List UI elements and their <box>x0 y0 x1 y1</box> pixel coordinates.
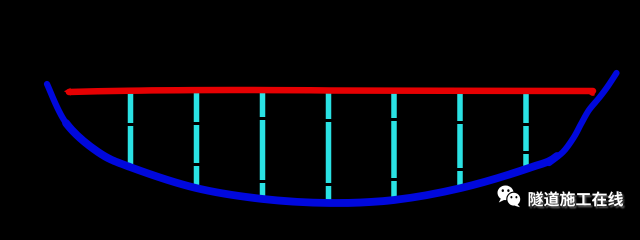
cyan strut 6 <box>457 92 463 190</box>
blue invert arc main <box>66 123 557 203</box>
red right end tick <box>588 93 595 96</box>
cyan strut 1 <box>128 92 134 169</box>
cyan strut 4 <box>326 92 332 205</box>
cyan strut 2 <box>194 88 200 190</box>
cyan strut 5 <box>391 91 397 198</box>
blue invert arc right tip <box>549 73 617 163</box>
watermark wechat icon <box>498 186 521 208</box>
red horizontal line <box>69 90 593 92</box>
red left arrowhead <box>64 88 71 96</box>
cyan strut 7 <box>523 91 529 169</box>
cyan strut 3 <box>260 92 266 201</box>
blue invert arc left tip <box>47 84 85 143</box>
